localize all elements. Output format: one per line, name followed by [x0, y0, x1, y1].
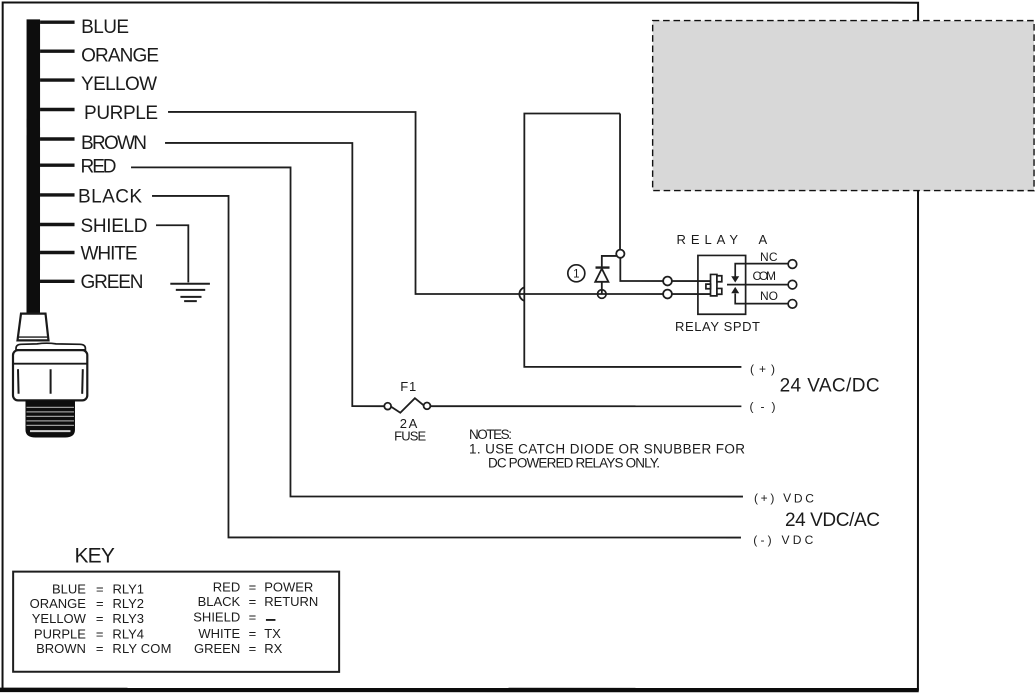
- relay terminal COM: [788, 280, 797, 289]
- svg-text:KEY: KEY: [74, 544, 115, 567]
- svg-text:=: =: [249, 594, 257, 609]
- svg-text:=: =: [249, 609, 257, 624]
- cable: [27, 19, 41, 315]
- wire BLACK to minus VDC: [152, 196, 741, 538]
- node BROWN: [40, 133, 147, 154]
- fuse F1: [384, 398, 430, 413]
- svg-text:TX: TX: [264, 626, 281, 641]
- transducer sensor: [13, 314, 87, 438]
- svg-text:24 VAC/DC: 24 VAC/DC: [780, 376, 880, 397]
- svg-text:RED: RED: [81, 157, 117, 178]
- svg-text:RELAY: RELAY: [677, 232, 739, 247]
- svg-text:RLY2: RLY2: [112, 596, 144, 611]
- wire fuse to minus: [430, 405, 741, 407]
- svg-text:ORANGE: ORANGE: [81, 46, 159, 67]
- svg-text:SHIELD: SHIELD: [81, 216, 148, 237]
- svg-text:RETURN: RETURN: [264, 594, 318, 609]
- svg-text:=: =: [96, 596, 104, 611]
- svg-text:(-): (-): [749, 400, 775, 414]
- svg-text:1: 1: [573, 269, 579, 281]
- svg-text:BLACK: BLACK: [78, 187, 142, 208]
- svg-text:RLY COM: RLY COM: [112, 641, 171, 656]
- node RED: [40, 157, 117, 178]
- svg-text:=: =: [96, 626, 104, 641]
- relay terminal NC: [788, 260, 797, 269]
- svg-text:=: =: [96, 611, 104, 626]
- svg-text:RLY1: RLY1: [112, 581, 144, 596]
- connector circle upper: [663, 277, 672, 286]
- svg-text:RED: RED: [213, 579, 240, 594]
- svg-text:F1: F1: [400, 379, 416, 394]
- node GREEN: [40, 272, 144, 293]
- relay terminal NO: [788, 300, 797, 309]
- svg-text:COM: COM: [753, 269, 777, 283]
- svg-text:BLACK: BLACK: [198, 594, 241, 609]
- label RELAY A: [677, 232, 768, 247]
- wire RED to plus VDC: [131, 167, 743, 496]
- KEY box: [13, 572, 339, 672]
- node WHITE: [40, 244, 138, 265]
- svg-text:WHITE: WHITE: [198, 626, 240, 641]
- svg-text:GREEN: GREEN: [194, 641, 240, 656]
- wire PURPLE to relay coil: [168, 112, 711, 294]
- svg-text:ORANGE: ORANGE: [30, 596, 87, 611]
- connector circle lower: [663, 290, 672, 299]
- wire BROWN to fuse: [165, 143, 384, 406]
- svg-text:PURPLE: PURPLE: [84, 103, 158, 124]
- svg-text:NC: NC: [760, 250, 778, 264]
- svg-text:RLY3: RLY3: [112, 611, 144, 626]
- svg-text:BROWN: BROWN: [81, 133, 147, 154]
- svg-text:BROWN: BROWN: [36, 641, 86, 656]
- node PURPLE: [40, 103, 158, 124]
- svg-text:1. USE CATCH DIODE OR SNUBBER: 1. USE CATCH DIODE OR SNUBBER FOR: [469, 442, 745, 457]
- svg-text:=: =: [249, 641, 257, 656]
- diode catch D1: [595, 256, 616, 294]
- svg-text:FUSE: FUSE: [394, 428, 426, 443]
- svg-text:NOTES:: NOTES:: [469, 427, 512, 442]
- svg-text:WHITE: WHITE: [81, 244, 138, 265]
- svg-text:NO: NO: [760, 289, 778, 303]
- svg-text:PURPLE: PURPLE: [34, 626, 86, 641]
- wire relay supply with hop: [524, 114, 741, 367]
- wire SHIELD to ground: [156, 225, 188, 282]
- svg-text:=: =: [96, 581, 104, 596]
- notes: [469, 427, 745, 471]
- svg-text:GREEN: GREEN: [81, 272, 144, 293]
- svg-text:=: =: [249, 579, 257, 594]
- note marker 1: [568, 265, 585, 282]
- KEY left column: [30, 581, 172, 656]
- svg-text:(+) VDC: (+) VDC: [754, 491, 814, 505]
- node BLUE: [40, 17, 129, 38]
- node ORANGE: [40, 46, 159, 67]
- svg-text:RELAY SPDT: RELAY SPDT: [675, 319, 760, 334]
- relay A box: [698, 255, 746, 314]
- svg-text:SHIELD: SHIELD: [193, 609, 240, 624]
- image placeholder grey box: [653, 21, 1034, 191]
- svg-text:YELLOW: YELLOW: [32, 611, 87, 626]
- wire relay coil top branch: [620, 114, 711, 282]
- svg-text:(+): (+): [750, 362, 775, 376]
- svg-text:BLUE: BLUE: [81, 17, 129, 38]
- relay coil: [706, 274, 722, 295]
- node SHIELD: [40, 216, 148, 237]
- KEY shield ground mark: [266, 619, 275, 621]
- relay contacts: [727, 264, 788, 304]
- node BLACK: [40, 187, 142, 208]
- svg-text:YELLOW: YELLOW: [81, 74, 157, 95]
- svg-text:A: A: [759, 232, 768, 247]
- svg-text:=: =: [249, 626, 257, 641]
- svg-text:RLY4: RLY4: [112, 626, 144, 641]
- svg-text:POWER: POWER: [264, 579, 313, 594]
- svg-text:BLUE: BLUE: [52, 581, 86, 596]
- KEY right column: [193, 579, 318, 656]
- junction circle top of diode branch: [616, 250, 624, 258]
- ground: [170, 284, 210, 301]
- junction circle at diode anode: [598, 290, 607, 299]
- svg-text:DC POWERED RELAYS ONLY.: DC POWERED RELAYS ONLY.: [488, 456, 660, 471]
- svg-text:=: =: [96, 641, 104, 656]
- svg-text:RX: RX: [264, 641, 282, 656]
- node YELLOW: [40, 74, 157, 95]
- svg-text:(-) VDC: (-) VDC: [753, 533, 813, 547]
- svg-text:24 VDC/AC: 24 VDC/AC: [785, 510, 880, 531]
